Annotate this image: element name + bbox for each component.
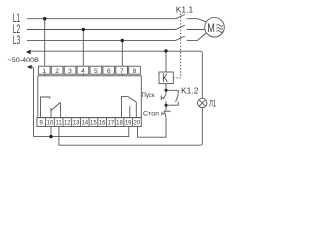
wire K coil top — [165, 51, 167, 72]
svg-text:11: 11 — [55, 120, 62, 126]
wire L1 to motor — [187, 19, 207, 22]
mechanical link dashed — [173, 14, 180, 78]
contact K1.2 branch top — [166, 90, 178, 94]
wire L2 line — [27, 29, 176, 31]
svg-text:7: 7 — [120, 68, 124, 75]
svg-text:16: 16 — [99, 120, 106, 126]
svg-text:2: 2 — [55, 68, 59, 75]
svg-text:13: 13 — [73, 120, 80, 126]
start button actuator — [161, 96, 164, 101]
wire left arrow lead — [29, 67, 34, 137]
wire lamp bottom to node — [200, 108, 202, 146]
node L1 junction — [43, 17, 46, 20]
terminal numbers 9-20 — [40, 120, 141, 126]
relay contact left: terminal 10 post — [50, 108, 52, 118]
wire L3 drop to terminal 7 — [121, 40, 123, 66]
wire L2 drop to terminal 4 — [82, 30, 84, 67]
svg-text:L3: L3 — [13, 33, 21, 47]
wire measuring line ~50-400V — [28, 51, 202, 53]
svg-text:18: 18 — [116, 120, 123, 126]
svg-text:6: 6 — [107, 68, 111, 75]
relay contact right: terminal 18 post — [122, 97, 129, 118]
arrow supply top — [26, 50, 31, 54]
wire stub cell7-box — [121, 74, 123, 76]
relay contact right: blade — [128, 97, 136, 118]
svg-text:~50-400В: ~50-400В — [8, 57, 40, 64]
coil K box — [159, 72, 173, 84]
svg-text:10: 10 — [47, 120, 54, 126]
motor circle — [205, 17, 225, 37]
wire L2 to motor — [187, 29, 205, 31]
contact K1.1 pole 3 blade — [176, 36, 185, 40]
svg-text:1: 1 — [42, 68, 46, 75]
svg-text:Пуск: Пуск — [142, 92, 155, 99]
svg-text:15: 15 — [90, 120, 97, 126]
wire K coil bottom — [165, 84, 167, 91]
svg-text:K1.1: K1.1 — [176, 5, 193, 14]
svg-text:Стоп: Стоп — [143, 110, 159, 117]
stop button actuator — [162, 112, 165, 116]
relay contact right: terminal 19 post — [129, 106, 131, 118]
wire bottom left to terminal 19 — [34, 127, 129, 137]
svg-text:9: 9 — [40, 120, 44, 126]
wire start button top lead — [165, 90, 167, 94]
svg-text:3: 3 — [68, 68, 72, 75]
wire start button bottom lead — [165, 101, 167, 105]
svg-text:5: 5 — [94, 68, 98, 75]
svg-text:Л1: Л1 — [209, 98, 216, 108]
wire L3 line — [27, 39, 176, 41]
terminal strip top 1-8 — [38, 66, 140, 74]
stop button bar — [164, 110, 170, 113]
svg-text:4: 4 — [81, 68, 85, 75]
wire terminal 20 to stop button — [138, 118, 167, 138]
terminal strip bottom 9-20 — [37, 118, 141, 127]
svg-text:K1.2: K1.2 — [181, 87, 199, 96]
relay contact left: blade — [51, 103, 61, 118]
lamp L1 circle — [198, 98, 207, 107]
node L3 junction — [121, 39, 124, 42]
wire terminal 10 drop — [50, 127, 52, 137]
node start bottom junction — [165, 104, 168, 107]
contact K1.1 pole 2 blade — [176, 25, 185, 29]
contact K1.1 pole 1 blade — [176, 14, 185, 18]
wire L1 line — [27, 18, 176, 20]
svg-text:8: 8 — [133, 68, 137, 75]
motor 3~ symbol — [217, 25, 223, 33]
node coil junction — [164, 49, 167, 52]
node bottom left junction — [49, 135, 52, 138]
contact K1.2 blade — [176, 95, 179, 102]
stop button blade — [164, 111, 166, 117]
relay contact left: terminal 9 post — [41, 97, 50, 118]
wire L1 drop to terminal 1 — [44, 19, 46, 66]
node L2 junction — [82, 28, 85, 31]
wire L3 to motor — [187, 33, 207, 41]
contact K1.2 branch bottom — [166, 102, 178, 106]
svg-text:20: 20 — [134, 120, 141, 126]
svg-text:19: 19 — [125, 120, 132, 126]
svg-text:17: 17 — [107, 120, 114, 126]
wire stop button top lead — [165, 105, 167, 111]
svg-text:14: 14 — [81, 120, 88, 126]
svg-text:12: 12 — [64, 120, 71, 126]
device box — [38, 76, 142, 118]
lamp L1 cross — [199, 100, 206, 107]
start button blade — [163, 94, 166, 99]
terminal numbers 1-8 — [42, 68, 136, 75]
node start top junction — [165, 89, 168, 92]
arrow supply bottom — [27, 65, 32, 69]
wire right drop to lamp — [201, 53, 203, 98]
svg-text:M: M — [207, 23, 215, 35]
wire stub cell1-box — [44, 74, 46, 76]
wire stub cell4-box — [82, 74, 84, 76]
svg-text:K: K — [162, 71, 168, 85]
wire bottom long to terminal 11 — [59, 127, 200, 146]
